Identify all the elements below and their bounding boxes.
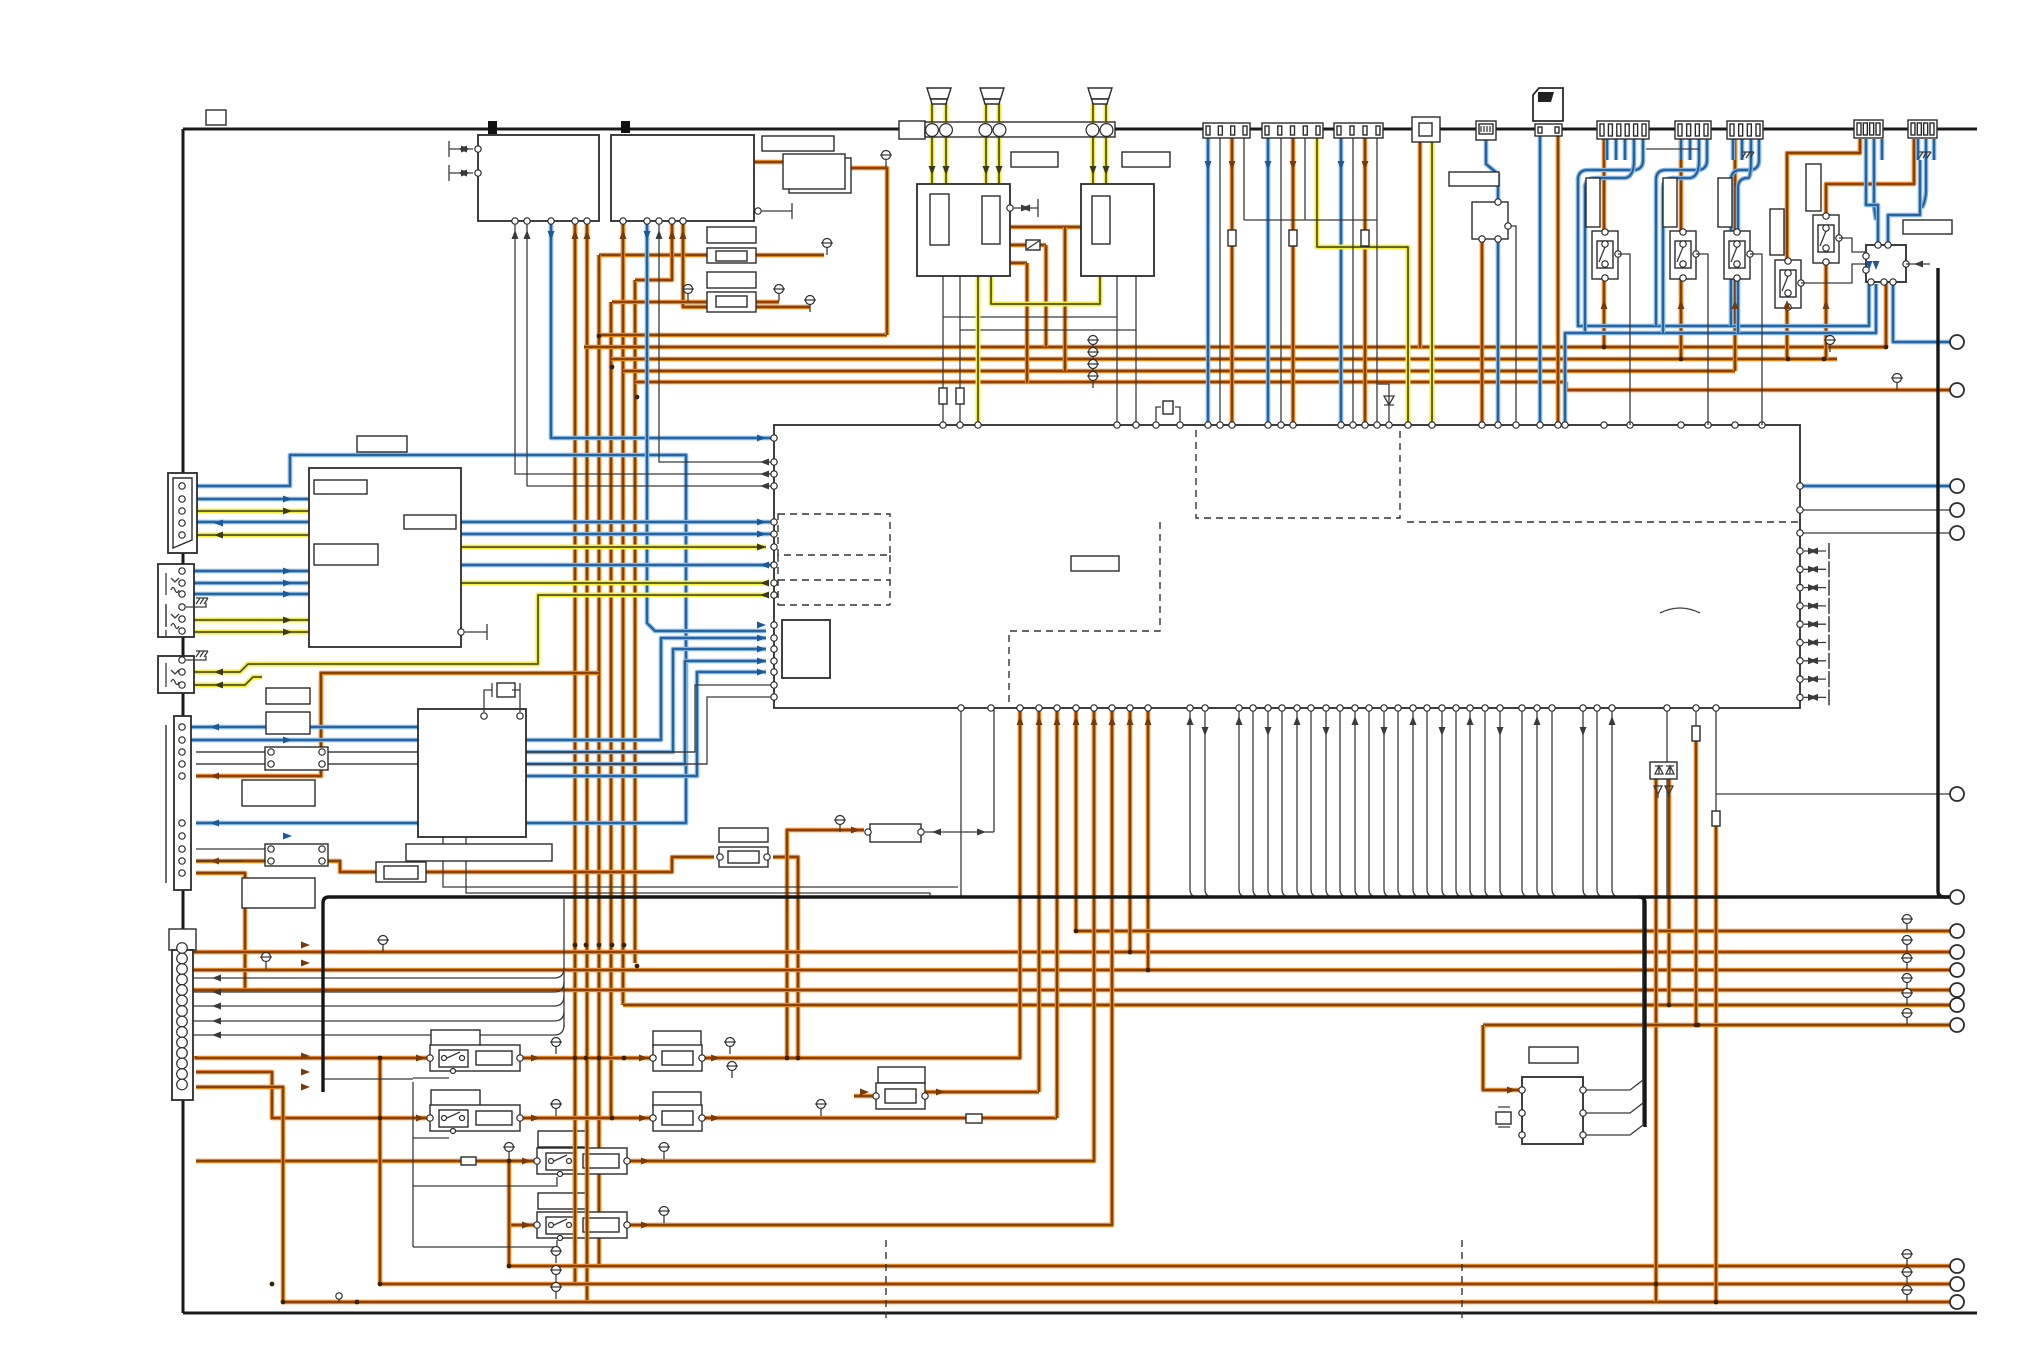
wire (328, 763, 707, 765)
test point (262, 953, 271, 962)
wire (413, 1137, 449, 1139)
test point (552, 1266, 561, 1275)
terminal (1950, 945, 1964, 959)
wire (1377, 384, 1389, 425)
test point (660, 1143, 669, 1152)
wire (1190, 708, 1198, 897)
wire (413, 1077, 449, 1079)
wire (635, 221, 672, 280)
dashed boundary (1407, 521, 1800, 523)
IC bottom pins (958, 705, 964, 711)
fuse (939, 388, 947, 404)
wire (702, 1116, 1057, 1121)
device (1412, 117, 1440, 142)
block (1472, 202, 1508, 239)
wire (1116, 317, 1118, 425)
label (707, 272, 756, 288)
wire (1355, 708, 1363, 897)
wire (196, 873, 245, 990)
wire (1413, 708, 1421, 897)
wire bus (329, 895, 1951, 898)
box (172, 950, 193, 1100)
label (707, 227, 756, 243)
wire (1800, 509, 1957, 511)
wire (1243, 133, 1245, 220)
wire (328, 751, 695, 753)
box (174, 716, 191, 890)
test point (882, 151, 891, 160)
wire (960, 275, 1136, 330)
diode (1384, 396, 1394, 405)
test point (1903, 1009, 1912, 1018)
label (431, 1090, 480, 1107)
wire (845, 168, 887, 335)
wire (1556, 133, 1561, 425)
terminal (1950, 383, 1964, 397)
wire (942, 275, 944, 425)
fuse (1289, 230, 1297, 246)
wire (1714, 826, 1719, 1302)
wire (1888, 160, 1920, 245)
test point (1903, 1286, 1912, 1295)
wire (1044, 245, 1049, 347)
wire (1602, 139, 1607, 347)
wire (1037, 708, 1042, 1092)
wire (1010, 261, 1027, 266)
label (1529, 1047, 1578, 1063)
box (782, 620, 830, 678)
test point (817, 1100, 826, 1109)
dashed boundary (1009, 522, 1160, 708)
wire (1442, 708, 1450, 897)
wire (1667, 779, 1672, 1005)
terminal (1950, 983, 1964, 997)
wire (182, 520, 309, 525)
label (314, 480, 367, 494)
res pair (265, 844, 328, 866)
label (653, 1092, 701, 1108)
test point (1089, 372, 1098, 381)
wire (380, 1282, 1957, 1287)
wire (944, 103, 949, 184)
wire (1696, 254, 1708, 425)
wire (190, 1025, 564, 1035)
wire (1612, 708, 1620, 897)
box (309, 468, 461, 647)
wire (186, 725, 418, 730)
wire (1663, 160, 1699, 333)
wire (1376, 133, 1378, 425)
wire (1496, 239, 1501, 425)
switch (546, 1153, 575, 1170)
fuse (1692, 726, 1700, 741)
terminal (1950, 526, 1964, 540)
inner (728, 851, 759, 863)
box (158, 564, 194, 637)
wire (196, 860, 242, 862)
wire (1731, 160, 1759, 326)
switch SW5 (1775, 260, 1801, 308)
connector (1854, 120, 1883, 138)
wire (854, 1094, 876, 1099)
wire (1695, 708, 1697, 726)
wire (584, 345, 1886, 350)
wire (1398, 708, 1406, 897)
wire (597, 255, 602, 1266)
rj45 (1476, 121, 1496, 140)
switch (439, 1050, 468, 1067)
wire (196, 1056, 430, 1058)
label (431, 1030, 480, 1047)
speaker funnel (927, 88, 951, 99)
wire (1485, 708, 1493, 897)
terminal (1950, 1277, 1964, 1291)
wire (186, 618, 309, 623)
wire bus (1944, 895, 1951, 898)
wire (629, 708, 1094, 1161)
test point (552, 1247, 561, 1256)
box (611, 135, 754, 221)
wire (943, 275, 1117, 317)
test point (1826, 336, 1835, 345)
wire (1866, 139, 1882, 160)
diode pair (1650, 762, 1677, 779)
dashed boundary (1461, 1240, 1463, 1318)
wire (1733, 139, 1759, 160)
wire (461, 581, 766, 586)
wire (1508, 226, 1516, 425)
wire (635, 380, 1566, 385)
label (266, 688, 310, 704)
wire (925, 831, 994, 833)
wire (1656, 160, 1707, 326)
wire (413, 1177, 557, 1186)
long bar (925, 122, 1115, 137)
wire (756, 253, 824, 258)
wire (1826, 139, 1914, 359)
label (1586, 178, 1600, 227)
wire (1253, 708, 1261, 897)
wire (190, 968, 564, 978)
box (418, 709, 526, 837)
IC left pins (771, 435, 777, 441)
wire (1715, 709, 1717, 811)
junction dots (597, 334, 602, 339)
wire (1091, 103, 1096, 184)
wire (1585, 185, 1876, 333)
terminal (1950, 787, 1964, 801)
chassis border bottom (183, 1312, 1977, 1315)
wire (1566, 382, 1957, 390)
wire (323, 1078, 413, 1080)
box (1081, 184, 1154, 276)
wire (196, 697, 773, 764)
wire (196, 848, 265, 850)
wire (1239, 708, 1247, 897)
fuse (1712, 811, 1720, 826)
speaker funnel (1088, 88, 1112, 99)
res inner (716, 296, 747, 307)
wire (1010, 243, 1046, 248)
label on wire (357, 436, 407, 452)
label (242, 780, 315, 806)
wire (1578, 178, 1869, 326)
tuner gnd symbol (458, 629, 464, 635)
wire (1074, 708, 1079, 931)
wire (1583, 897, 1643, 1135)
test point (775, 285, 784, 294)
wire (526, 661, 766, 764)
wire (186, 656, 206, 660)
wire (1866, 160, 1878, 245)
wire (1076, 929, 1957, 934)
box (917, 184, 1010, 276)
wire (1483, 1023, 1957, 1028)
wire (1733, 139, 1738, 371)
label (1122, 152, 1170, 167)
label (1806, 164, 1821, 211)
wire (461, 563, 774, 568)
fuse (956, 388, 964, 404)
wire (509, 1264, 1957, 1269)
wire (283, 1300, 1957, 1305)
wire (426, 857, 714, 872)
test point (1903, 954, 1912, 963)
wire (773, 857, 798, 1058)
label (538, 1193, 587, 1209)
wire (196, 1087, 283, 1302)
wire (1369, 708, 1377, 897)
wire (413, 1240, 557, 1247)
wire (526, 672, 766, 776)
pot inner (384, 866, 418, 879)
switch SW2 (1670, 231, 1696, 279)
wire (930, 103, 935, 184)
xfmr gnd symbol (1007, 205, 1013, 211)
wire (196, 751, 265, 753)
wire (182, 533, 309, 538)
wire (755, 160, 783, 165)
resistor (653, 1105, 702, 1131)
label (1770, 209, 1784, 255)
wire (1922, 160, 1926, 208)
wire (960, 708, 962, 897)
wire (186, 603, 206, 607)
terminal (1950, 1295, 1964, 1309)
box (158, 656, 194, 693)
wire (612, 300, 707, 305)
wire (1311, 708, 1319, 897)
crystal on top edge (1156, 407, 1180, 425)
wire (509, 1223, 537, 1228)
label (266, 712, 310, 734)
wire (196, 763, 265, 765)
bus corner fillets (323, 891, 1944, 903)
dashed boundary (1196, 430, 1400, 518)
crystal (1163, 401, 1173, 414)
inner (930, 194, 949, 245)
test point (1903, 915, 1912, 924)
wire (1538, 133, 1543, 425)
wire (1654, 779, 1659, 1302)
fuse (1361, 230, 1369, 246)
terminal (1950, 479, 1964, 493)
block A antenna symbols (449, 141, 473, 181)
test point (1089, 360, 1098, 369)
wire (756, 300, 779, 305)
wire (585, 1128, 590, 1245)
wide label (406, 844, 552, 861)
fuse box (899, 121, 925, 139)
wire (585, 221, 590, 1302)
switch (439, 1110, 468, 1127)
wire (1607, 139, 1643, 160)
wire (1205, 708, 1213, 897)
terminal (1950, 335, 1964, 349)
test point (552, 1038, 561, 1047)
fuse (1026, 240, 1040, 250)
wire (1583, 897, 1643, 1090)
wire (573, 1282, 578, 1287)
wire (186, 455, 686, 823)
block B bottom pins (620, 218, 626, 224)
wire (573, 221, 578, 1284)
wire (1268, 708, 1276, 897)
wire (1716, 793, 1957, 795)
wire (1470, 708, 1478, 897)
fuse (461, 1157, 476, 1165)
test point (1903, 936, 1912, 945)
curve mark (1660, 608, 1700, 613)
wire (991, 275, 1100, 304)
wire (1801, 264, 1866, 283)
wire (1537, 708, 1545, 897)
test point (726, 1038, 735, 1047)
wire (1282, 708, 1290, 897)
wire (1750, 254, 1762, 425)
switch SW1 (1592, 231, 1618, 279)
wire (507, 1161, 512, 1266)
pot (376, 862, 426, 882)
wire (611, 357, 1837, 362)
wire (182, 738, 418, 743)
wire (190, 996, 564, 1006)
connector (1675, 121, 1711, 139)
wire (1679, 139, 1684, 359)
wire (186, 630, 309, 635)
inner (1419, 123, 1432, 136)
wire (1597, 708, 1605, 897)
wire (1480, 239, 1485, 425)
test point (1903, 1250, 1912, 1259)
wire (412, 1082, 414, 1247)
inner (1818, 225, 1834, 252)
wire (182, 509, 309, 514)
block A bottom pins (512, 218, 518, 224)
wire (1146, 708, 1151, 970)
res pair (265, 747, 328, 770)
test point (806, 296, 815, 305)
label (404, 515, 456, 529)
dashed boundary (778, 514, 890, 555)
connector (1597, 121, 1649, 139)
wire (573, 1128, 578, 1245)
wire (1055, 708, 1060, 1118)
wire (621, 221, 626, 1005)
wire (702, 708, 1020, 1058)
title box (206, 110, 226, 125)
wire (1206, 133, 1211, 425)
switch SW4 (1813, 215, 1839, 263)
wire (925, 1090, 1039, 1095)
label (1071, 556, 1119, 571)
connector (1908, 120, 1937, 138)
wire (186, 569, 309, 574)
wire (515, 221, 774, 474)
wire (186, 592, 309, 597)
speaker funnel (980, 88, 1004, 99)
inner (1780, 270, 1796, 297)
terminal (1950, 503, 1964, 517)
wire (1304, 133, 1306, 220)
wire (1244, 219, 1377, 221)
inner (1729, 241, 1745, 268)
relay (537, 1148, 627, 1174)
wire (192, 968, 1957, 973)
sd connector (1535, 124, 1562, 136)
wire (1839, 238, 1866, 252)
wire (1618, 254, 1630, 425)
wire (1874, 160, 1876, 220)
box (1866, 245, 1906, 282)
ground (196, 651, 208, 657)
label (1903, 220, 1952, 234)
inner (662, 1111, 693, 1125)
wire (461, 545, 766, 550)
wire (196, 685, 773, 752)
wire (1352, 133, 1354, 425)
ground (1919, 152, 1931, 158)
wire (976, 275, 981, 425)
connector (1727, 121, 1763, 139)
wire (1666, 708, 1668, 897)
test point (728, 1062, 737, 1071)
label (314, 544, 378, 565)
switch SW3 (1724, 231, 1750, 279)
sub block (783, 154, 845, 189)
relay (430, 1105, 520, 1131)
wire (196, 1072, 430, 1118)
label (719, 828, 768, 842)
wire (192, 988, 1957, 993)
wire (1339, 133, 1344, 425)
terminal (1950, 1259, 1964, 1273)
wire (551, 221, 774, 438)
label (762, 136, 834, 151)
label (242, 878, 315, 908)
wire (1552, 708, 1560, 897)
wire (1317, 133, 1408, 425)
jumper (966, 1114, 982, 1123)
label (1718, 178, 1732, 227)
res outer (707, 292, 756, 312)
wire (1498, 1107, 1510, 1127)
terminal (1950, 1018, 1964, 1032)
test point (1089, 348, 1098, 357)
wire (1010, 225, 1082, 230)
wire (1738, 160, 1751, 333)
wire (1787, 139, 1860, 359)
